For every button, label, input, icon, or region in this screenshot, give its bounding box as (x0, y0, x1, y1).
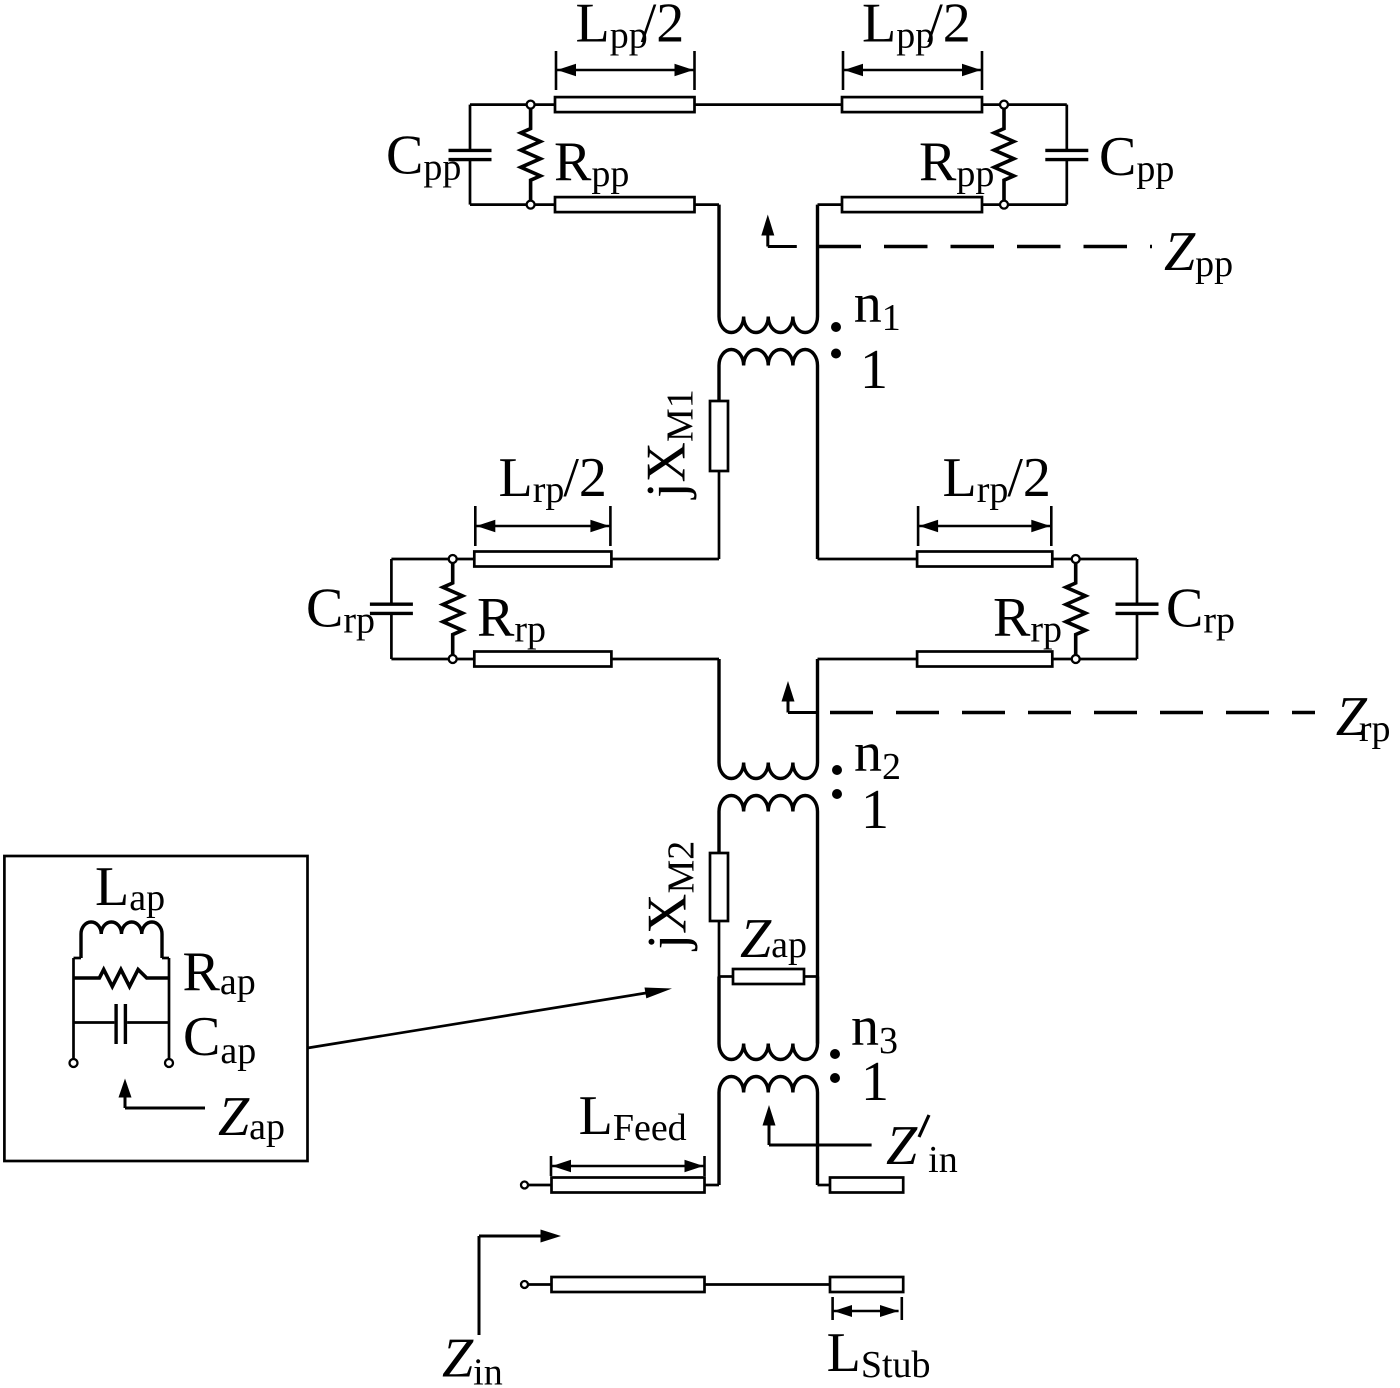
svg-text:1: 1 (860, 339, 888, 401)
svg-text:1: 1 (861, 779, 889, 841)
svg-text:1: 1 (861, 1051, 889, 1113)
